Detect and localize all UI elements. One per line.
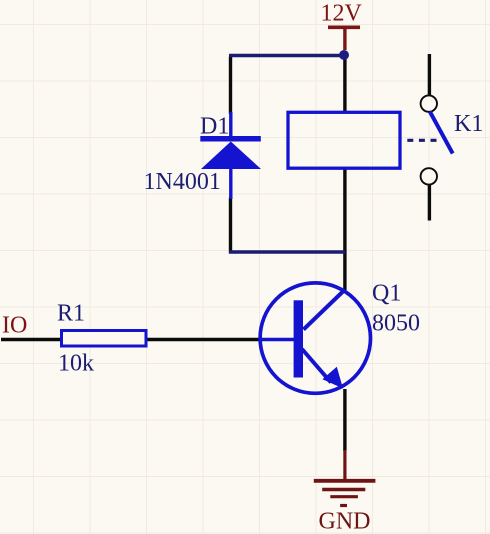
svg-text:GND: GND xyxy=(319,509,371,534)
svg-text:Q1: Q1 xyxy=(372,281,401,307)
svg-text:IO: IO xyxy=(2,313,27,339)
svg-text:D1: D1 xyxy=(200,114,229,140)
svg-text:K1: K1 xyxy=(454,111,483,137)
svg-text:8050: 8050 xyxy=(372,311,420,337)
svg-text:10k: 10k xyxy=(58,351,94,377)
svg-text:R1: R1 xyxy=(57,301,85,327)
svg-text:12V: 12V xyxy=(321,1,363,27)
svg-text:1N4001: 1N4001 xyxy=(144,169,221,195)
